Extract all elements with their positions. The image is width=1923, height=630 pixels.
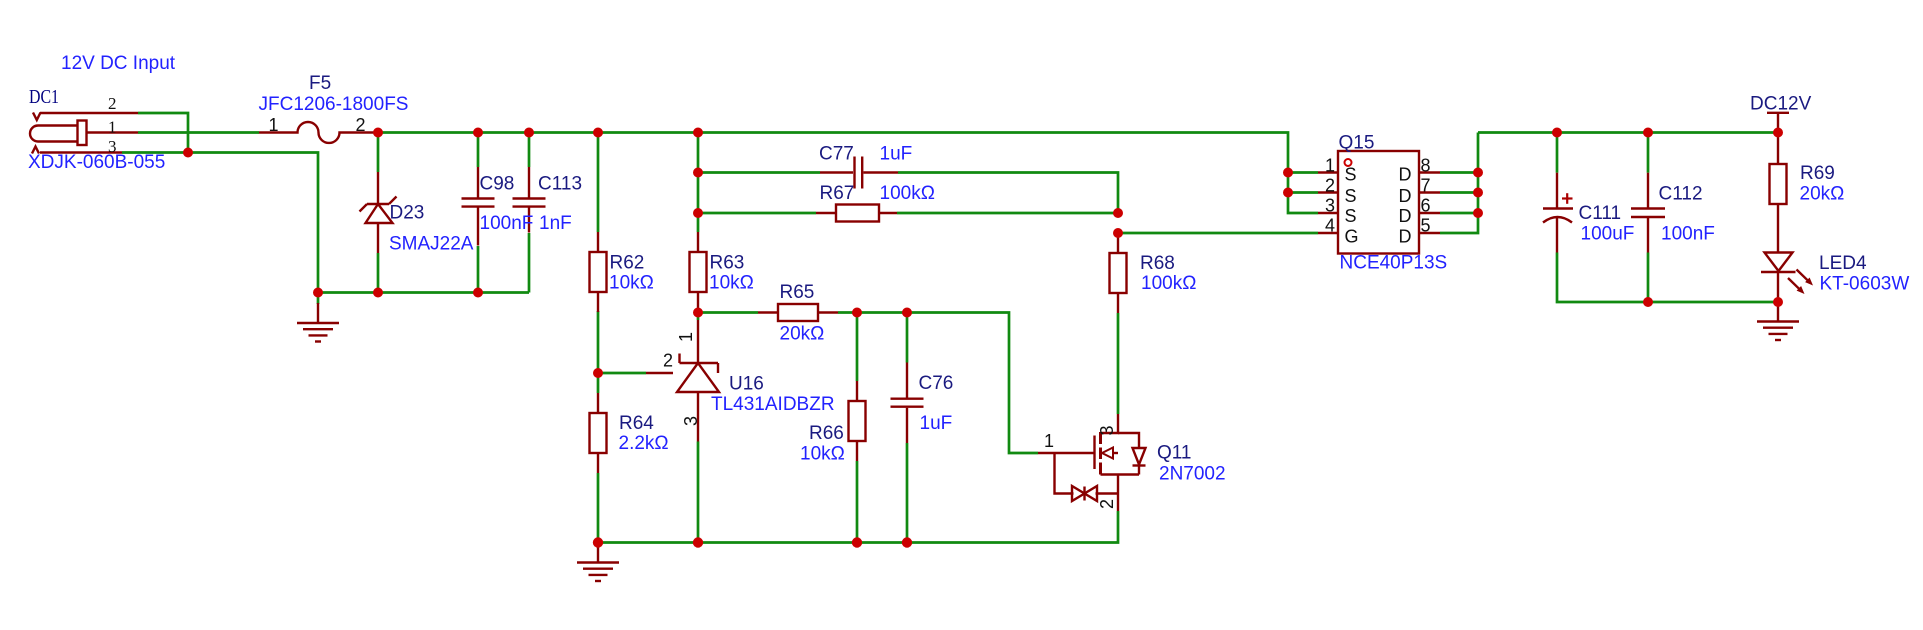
svg-text:3: 3 [1097, 425, 1117, 435]
svg-text:R63: R63 [710, 253, 745, 274]
svg-text:S: S [1345, 165, 1357, 185]
svg-text:TL431AIDBZR: TL431AIDBZR [711, 394, 835, 415]
svg-text:2N7002: 2N7002 [1159, 464, 1226, 485]
svg-text:R65: R65 [780, 282, 815, 303]
svg-text:1: 1 [676, 332, 696, 342]
svg-text:3: 3 [108, 137, 117, 156]
svg-text:C113: C113 [538, 174, 582, 195]
svg-text:R67: R67 [820, 183, 855, 204]
svg-text:S: S [1345, 186, 1357, 206]
svg-text:NCE40P13S: NCE40P13S [1340, 253, 1448, 274]
svg-text:2: 2 [356, 115, 366, 135]
svg-text:DC12V: DC12V [1750, 94, 1812, 115]
svg-text:2.2kΩ: 2.2kΩ [619, 433, 669, 454]
svg-text:R66: R66 [809, 423, 844, 444]
svg-text:20kΩ: 20kΩ [1800, 184, 1845, 205]
svg-text:2: 2 [108, 94, 117, 113]
svg-text:D: D [1399, 206, 1412, 226]
svg-text:SMAJ22A: SMAJ22A [389, 234, 474, 255]
svg-text:8: 8 [1421, 156, 1431, 176]
svg-text:100kΩ: 100kΩ [1141, 273, 1196, 294]
svg-text:2: 2 [1325, 176, 1335, 196]
svg-text:3: 3 [1325, 196, 1335, 216]
svg-text:R68: R68 [1140, 253, 1175, 274]
svg-text:C98: C98 [480, 174, 515, 195]
svg-text:XDJK-060B-055: XDJK-060B-055 [28, 152, 165, 173]
svg-text:C77: C77 [819, 144, 854, 165]
svg-text:D23: D23 [390, 203, 425, 224]
svg-text:D: D [1399, 165, 1412, 185]
svg-text:F5: F5 [309, 73, 331, 94]
svg-text:JFC1206-1800FS: JFC1206-1800FS [259, 94, 409, 115]
svg-text:5: 5 [1421, 216, 1431, 236]
svg-text:2: 2 [663, 351, 673, 371]
svg-text:10kΩ: 10kΩ [800, 444, 845, 465]
svg-text:U16: U16 [729, 374, 764, 395]
svg-text:R69: R69 [1800, 163, 1835, 184]
svg-text:DC1: DC1 [29, 86, 59, 108]
svg-text:C111: C111 [1579, 203, 1622, 224]
svg-text:Q11: Q11 [1157, 443, 1192, 464]
svg-text:1: 1 [269, 115, 279, 135]
svg-text:1: 1 [1044, 431, 1054, 451]
svg-text:20kΩ: 20kΩ [780, 324, 825, 345]
svg-text:2: 2 [1097, 499, 1117, 509]
svg-text:100uF: 100uF [1581, 224, 1635, 245]
svg-text:LED4: LED4 [1819, 253, 1867, 274]
svg-text:1: 1 [1325, 156, 1335, 176]
svg-text:1uF: 1uF [880, 144, 913, 165]
svg-text:100nF: 100nF [480, 213, 534, 234]
svg-text:6: 6 [1421, 196, 1431, 216]
svg-text:1uF: 1uF [920, 413, 953, 434]
svg-text:KT-0603W: KT-0603W [1820, 274, 1910, 295]
svg-text:1nF: 1nF [539, 213, 572, 234]
svg-text:10kΩ: 10kΩ [609, 273, 654, 294]
svg-text:D: D [1399, 186, 1412, 206]
svg-text:Q15: Q15 [1339, 133, 1375, 154]
svg-text:1: 1 [108, 118, 117, 137]
svg-text:100nF: 100nF [1661, 224, 1715, 245]
svg-text:S: S [1345, 206, 1357, 226]
svg-text:7: 7 [1421, 176, 1431, 196]
svg-text:4: 4 [1325, 216, 1335, 236]
svg-text:D: D [1399, 227, 1412, 247]
svg-text:3: 3 [681, 416, 701, 426]
svg-text:G: G [1345, 227, 1359, 247]
svg-text:100kΩ: 100kΩ [880, 183, 935, 204]
svg-text:C76: C76 [919, 373, 954, 394]
svg-text:10kΩ: 10kΩ [709, 273, 754, 294]
svg-text:C112: C112 [1659, 184, 1703, 205]
svg-text:R64: R64 [619, 413, 654, 434]
svg-text:12V DC Input: 12V DC Input [61, 53, 176, 74]
svg-text:R62: R62 [610, 253, 645, 274]
